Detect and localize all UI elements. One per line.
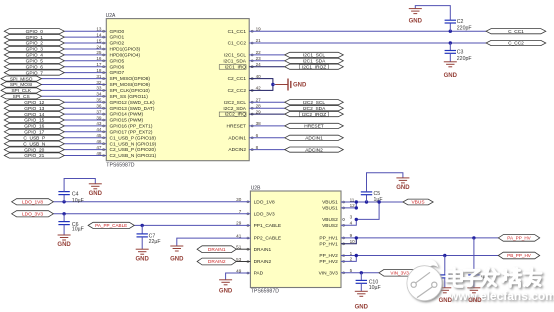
svg-text:HPD0(GPIO4): HPD0(GPIO4) — [110, 53, 141, 59]
svg-text:17: 17 — [96, 62, 102, 67]
svg-text:GPIO14 (PWM): GPIO14 (PWM) — [110, 112, 144, 118]
svg-text:32: 32 — [96, 80, 102, 85]
svg-text:GPIO_16: GPIO_16 — [24, 124, 44, 130]
svg-text:I2C2_SCL: I2C2_SCL — [303, 100, 325, 106]
svg-text:U2B: U2B — [251, 185, 261, 191]
svg-text:ADCIN1: ADCIN1 — [228, 135, 246, 141]
svg-text:TPS65987D: TPS65987D — [251, 289, 280, 295]
svg-text:GPIO13 (SWD_DAT): GPIO13 (SWD_DAT) — [110, 106, 155, 112]
svg-text:GND: GND — [136, 257, 150, 263]
svg-text:GPIO0: GPIO0 — [110, 29, 125, 35]
svg-text:SPI_MOSI: SPI_MOSI — [10, 82, 33, 88]
svg-text:34: 34 — [96, 92, 102, 97]
svg-text:VIN_3V3: VIN_3V3 — [319, 270, 339, 276]
svg-text:6: 6 — [256, 133, 259, 138]
svg-text:GND: GND — [219, 289, 233, 295]
svg-text:47: 47 — [96, 145, 102, 150]
svg-text:PA_PP_HV: PA_PP_HV — [507, 236, 531, 241]
svg-text:28: 28 — [256, 103, 262, 108]
svg-text:GND: GND — [89, 191, 103, 197]
svg-text:21: 21 — [256, 38, 262, 43]
svg-text:29: 29 — [256, 109, 262, 114]
svg-text:I2C2_SDA: I2C2_SDA — [223, 106, 246, 112]
svg-text:3: 3 — [350, 215, 353, 220]
svg-text:SPI_MISO: SPI_MISO — [10, 76, 33, 82]
svg-text:GPIO_6: GPIO_6 — [26, 64, 44, 70]
svg-text:PP2_CABLE: PP2_CABLE — [254, 236, 281, 242]
svg-text:SPI_MOSI(GPIO9): SPI_MOSI(GPIO9) — [110, 82, 151, 88]
svg-text:37: 37 — [96, 109, 102, 114]
svg-text:C_CC2: C_CC2 — [508, 41, 524, 47]
svg-text:C1_USB_P (GPIO18): C1_USB_P (GPIO18) — [110, 135, 157, 141]
svg-text:GND: GND — [396, 185, 410, 191]
svg-text:GPIO6: GPIO6 — [110, 64, 125, 70]
svg-text:I2C1_SCL: I2C1_SCL — [303, 53, 325, 59]
svg-text:C4: C4 — [72, 191, 79, 197]
svg-text:23: 23 — [256, 56, 262, 61]
svg-text:25: 25 — [96, 50, 102, 55]
svg-text:C2_USB_P (GPIO20): C2_USB_P (GPIO20) — [110, 147, 157, 153]
svg-text:GPIO_17: GPIO_17 — [24, 130, 44, 136]
svg-text:36: 36 — [96, 104, 102, 109]
svg-text:35: 35 — [96, 98, 102, 103]
svg-text:40: 40 — [256, 74, 262, 79]
svg-text:TPS65987D: TPS65987D — [106, 162, 135, 168]
svg-text:GPIO_12: GPIO_12 — [24, 100, 44, 106]
svg-text:27: 27 — [256, 97, 262, 102]
svg-text:U2A: U2A — [106, 13, 116, 19]
svg-text:GPIO_2: GPIO_2 — [26, 41, 44, 47]
svg-text:46: 46 — [96, 139, 102, 144]
svg-text:HRESET: HRESET — [227, 124, 247, 130]
svg-text:VBUS1: VBUS1 — [322, 200, 338, 206]
svg-text:33: 33 — [96, 86, 102, 91]
svg-text:GPIO2: GPIO2 — [110, 41, 125, 47]
svg-text:10µF: 10µF — [369, 285, 381, 291]
svg-text:19: 19 — [256, 26, 262, 31]
svg-text:VBUS: VBUS — [411, 200, 424, 206]
svg-text:C2_USB_N (GPIO21): C2_USB_N (GPIO21) — [110, 153, 157, 159]
svg-text:PP_HV1: PP_HV1 — [319, 236, 338, 242]
svg-text:8: 8 — [256, 145, 259, 150]
svg-text:GPIO_14: GPIO_14 — [24, 112, 44, 118]
svg-text:42: 42 — [256, 86, 262, 91]
svg-text:SPI_CLK(GPIO10): SPI_CLK(GPIO10) — [110, 88, 151, 94]
svg-text:SPI_MISO(GPIO8): SPI_MISO(GPIO8) — [110, 76, 151, 82]
svg-text:C3: C3 — [457, 50, 464, 56]
svg-text:GPIO15 (PWM): GPIO15 (PWM) — [110, 118, 144, 124]
svg-text:HPD1(GPIO3): HPD1(GPIO3) — [110, 47, 141, 53]
svg-text:GND: GND — [57, 242, 71, 248]
svg-text:GND: GND — [293, 83, 307, 89]
svg-text:PAD: PAD — [254, 271, 264, 277]
svg-text:VBUS1: VBUS1 — [322, 206, 338, 212]
svg-text:38: 38 — [256, 121, 262, 126]
svg-text:DRAIN2: DRAIN2 — [208, 259, 226, 265]
svg-text:VBUS2: VBUS2 — [322, 217, 338, 223]
svg-text:45: 45 — [96, 133, 102, 138]
svg-text:PP_HV1: PP_HV1 — [319, 241, 338, 247]
svg-text:www.elecfans.com: www.elecfans.com — [448, 289, 554, 303]
svg-text:220pF: 220pF — [457, 26, 472, 32]
svg-text:SPI_CLK: SPI_CLK — [11, 88, 32, 94]
svg-text:GPIO_4: GPIO_4 — [26, 53, 44, 59]
svg-text:10µF: 10µF — [72, 226, 84, 232]
svg-text:I2C2_SDA: I2C2_SDA — [303, 106, 326, 112]
svg-text:15: 15 — [96, 38, 102, 43]
svg-text:10µF: 10µF — [72, 198, 84, 204]
svg-text:24: 24 — [96, 44, 102, 49]
svg-text:GND: GND — [439, 298, 453, 304]
svg-text:I2C1_SDA: I2C1_SDA — [303, 59, 326, 65]
svg-text:I2C1_SCL: I2C1_SCL — [224, 53, 246, 59]
svg-text:PP1_CABLE: PP1_CABLE — [254, 223, 281, 229]
svg-text:24: 24 — [256, 62, 262, 67]
svg-text:48: 48 — [96, 151, 102, 156]
svg-text:31: 31 — [96, 74, 102, 79]
svg-text:14: 14 — [96, 32, 102, 37]
svg-text:GPIO_7: GPIO_7 — [26, 70, 44, 76]
svg-text:I2C2_IRQZ: I2C2_IRQZ — [302, 112, 326, 118]
svg-text:ADCIN2: ADCIN2 — [228, 147, 246, 153]
svg-text:GPIO_13: GPIO_13 — [24, 106, 44, 112]
svg-text:LDO_3V3: LDO_3V3 — [254, 211, 275, 217]
svg-text:16: 16 — [96, 56, 102, 61]
svg-text:41: 41 — [236, 233, 242, 238]
svg-text:GPIO_3: GPIO_3 — [26, 47, 44, 53]
svg-text:22µF: 22µF — [149, 239, 161, 245]
svg-text:VBUS2: VBUS2 — [322, 223, 338, 229]
svg-text:GPIO7: GPIO7 — [110, 70, 125, 76]
svg-text:GPIO5: GPIO5 — [110, 58, 125, 64]
svg-text:C_CC1: C_CC1 — [508, 29, 524, 35]
svg-text:C2_CC2: C2_CC2 — [228, 88, 247, 94]
svg-text:GPIO_20: GPIO_20 — [24, 147, 44, 153]
svg-text:GPIO17 (PP_EXT2): GPIO17 (PP_EXT2) — [110, 129, 153, 135]
svg-text:ADCIN1: ADCIN1 — [305, 136, 323, 142]
svg-text:44: 44 — [96, 127, 102, 132]
svg-text:220pF: 220pF — [457, 56, 472, 62]
svg-text:18: 18 — [96, 68, 102, 73]
svg-text:GPIO1: GPIO1 — [110, 35, 125, 41]
svg-text:GPIO_0: GPIO_0 — [26, 29, 44, 35]
svg-text:GPIO12 (SWD_CLK): GPIO12 (SWD_CLK) — [110, 100, 155, 106]
svg-text:GPIO16 (PP_EXT1): GPIO16 (PP_EXT1) — [110, 124, 153, 130]
svg-text:LDO_1V8: LDO_1V8 — [22, 200, 43, 206]
svg-text:DRAIN1: DRAIN1 — [208, 247, 226, 253]
svg-text:DRAIN1: DRAIN1 — [254, 247, 272, 253]
svg-text:GPIO_5: GPIO_5 — [26, 59, 44, 65]
svg-text:C_USB_N: C_USB_N — [23, 141, 46, 147]
svg-text:43: 43 — [96, 121, 102, 126]
svg-text:PA_PP_CABLE: PA_PP_CABLE — [95, 223, 127, 228]
svg-text:39: 39 — [96, 115, 102, 120]
svg-text:SPI_CS: SPI_CS — [13, 94, 30, 100]
svg-text:GND: GND — [444, 73, 458, 79]
svg-text:I2C2_SCL: I2C2_SCL — [224, 100, 246, 106]
svg-text:GND: GND — [409, 18, 423, 24]
svg-text:PP_HV2: PP_HV2 — [319, 259, 338, 265]
svg-text:I2C1_SDA: I2C1_SDA — [223, 58, 246, 64]
svg-text:HRESET: HRESET — [304, 124, 324, 130]
svg-text:SPI_SS (GPIO11): SPI_SS (GPIO11) — [110, 94, 149, 100]
svg-text:PP_HV2: PP_HV2 — [319, 253, 338, 259]
svg-text:C1_USB_N (GPIO19): C1_USB_N (GPIO19) — [110, 141, 157, 147]
svg-text:13: 13 — [96, 27, 102, 32]
svg-text:VIN_3V3: VIN_3V3 — [390, 271, 409, 276]
svg-text:C2: C2 — [457, 19, 464, 25]
svg-text:ADCIN2: ADCIN2 — [305, 147, 323, 153]
svg-text:I2C1_IRQZ: I2C1_IRQZ — [302, 64, 326, 70]
svg-text:DRAIN2: DRAIN2 — [254, 259, 272, 265]
svg-text:22: 22 — [256, 50, 262, 55]
svg-text:GND: GND — [468, 298, 482, 304]
svg-text:GPIO_15: GPIO_15 — [24, 118, 44, 124]
svg-text:C_USB_P: C_USB_P — [23, 136, 45, 142]
svg-text:GPIO_1: GPIO_1 — [26, 35, 44, 41]
svg-text:PB_PP_HV: PB_PP_HV — [507, 253, 532, 258]
svg-text:C1_CC1: C1_CC1 — [228, 29, 247, 35]
svg-text:LDO_3V3: LDO_3V3 — [22, 212, 43, 218]
svg-text:GND: GND — [170, 257, 184, 263]
svg-text:C2_CC1: C2_CC1 — [228, 76, 247, 82]
svg-text:LDO_1V8: LDO_1V8 — [254, 199, 275, 205]
svg-text:C1_CC2: C1_CC2 — [228, 41, 247, 47]
svg-text:GND: GND — [355, 305, 369, 311]
svg-text:GPIO_21: GPIO_21 — [24, 153, 44, 159]
